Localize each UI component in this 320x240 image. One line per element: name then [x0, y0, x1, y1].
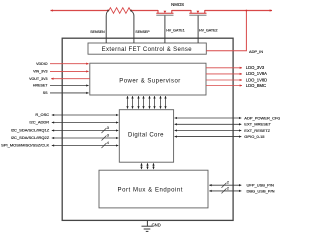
- svg-text:EXT_RESETZ: EXT_RESETZ: [244, 128, 270, 133]
- pin EXT_MRESET: [175, 123, 242, 125]
- svg-text:SS: SS: [43, 91, 48, 95]
- svg-text:R_OSC: R_OSC: [35, 112, 49, 117]
- svg-text:2: 2: [227, 186, 229, 190]
- transistor Q2 (NMOS): [189, 10, 206, 15]
- svg-text:LDO_BMC: LDO_BMC: [246, 83, 266, 88]
- LDO_3V3 output (red): [206, 67, 242, 69]
- pin SPI_MOSI/MISO/SSZ/CLK: [52, 145, 119, 147]
- svg-text:I2C_SDA/SCL/IRQ1Z: I2C_SDA/SCL/IRQ1Z: [11, 128, 50, 133]
- pin EXT_RESETZ: [175, 130, 242, 132]
- svg-text:LDO_1V8A: LDO_1V8A: [246, 71, 267, 76]
- svg-text:ADP_POWER_CFG1: ADP_POWER_CFG1: [244, 115, 280, 120]
- wire SENSEP (black, curved from rail down into FET box): [131, 11, 134, 43]
- svg-text:NMOS: NMOS: [171, 2, 184, 7]
- block Port Mux & Endpoint: [99, 170, 208, 208]
- svg-text:External FET Control & Sense: External FET Control & Sense: [102, 47, 193, 53]
- svg-text:SPI_MOSI/MISO/SSZ/CLK: SPI_MOSI/MISO/SSZ/CLK: [1, 143, 49, 148]
- svg-text:HRESET: HRESET: [33, 84, 48, 88]
- node SENSEN junction dot: [107, 10, 109, 12]
- LDO_1V8D output (red): [206, 79, 242, 81]
- pin VOUT_3V3 (red line out of Power block): [51, 78, 90, 80]
- resistor Rsense (red zigzag): [109, 8, 131, 14]
- svg-text:I2C_ADDR: I2C_ADDR: [29, 120, 49, 125]
- svg-text:VDDIO: VDDIO: [36, 62, 48, 66]
- svg-text:LDO_1V8D: LDO_1V8D: [246, 77, 267, 82]
- svg-text:GPIO_0-15: GPIO_0-15: [244, 134, 265, 139]
- svg-text:3: 3: [107, 126, 109, 130]
- svg-text:DBG_USB_P/N: DBG_USB_P/N: [247, 188, 275, 193]
- svg-text:SENSEN: SENSEN: [90, 30, 105, 34]
- ground: [142, 220, 153, 231]
- node ADP junction dot: [246, 10, 248, 12]
- svg-text:UFP_USB_P/N: UFP_USB_P/N: [247, 183, 274, 188]
- node SENSEP junction dot: [130, 10, 132, 12]
- svg-text:I2C_SDA/SCL/IRQ2Z: I2C_SDA/SCL/IRQ2Z: [11, 135, 50, 140]
- LDO_BMC output (red): [206, 85, 242, 87]
- svg-text:HV_GATE1: HV_GATE1: [166, 28, 185, 32]
- svg-text:3: 3: [107, 134, 109, 138]
- block Power & Supervisor: [90, 63, 206, 95]
- bus slash 3: [102, 136, 107, 141]
- bus slash 4: [102, 143, 107, 148]
- svg-text:SENSEP: SENSEP: [135, 30, 150, 34]
- svg-text:VIN_3V3: VIN_3V3: [33, 70, 47, 74]
- wire SENSEN (black, curved from rail down into FET box): [106, 11, 108, 43]
- svg-text:2: 2: [227, 181, 229, 185]
- pin HRESET (black line into Power block): [50, 85, 89, 87]
- pin I2C_SDA/SCL/IRQ1Z: [52, 130, 119, 132]
- transistor Q1 (NMOS): [156, 10, 173, 15]
- svg-text:Port Mux & Endpoint: Port Mux & Endpoint: [118, 187, 183, 193]
- wire HV_GATE2 (gate to FET box): [197, 16, 199, 43]
- bus slash 2: [222, 188, 227, 193]
- pin VDDIO (red line into Power block): [50, 63, 89, 65]
- bus Power to Digital (8 bidirectional arrows): [128, 96, 166, 109]
- block Digital Core: [119, 110, 173, 163]
- pin ADP_POWER_CFG1 (bidirectional from Digital Core): [175, 117, 242, 119]
- pin GPIO_0-15: [175, 136, 242, 138]
- pin R_OSC (bidirectional to Digital Core): [52, 114, 119, 116]
- svg-text:4: 4: [107, 141, 109, 145]
- LDO_1V8A output (red): [206, 73, 242, 75]
- svg-text:ADP_IN: ADP_IN: [249, 49, 263, 54]
- svg-text:HV_GATE2: HV_GATE2: [199, 28, 218, 32]
- bus slash 2: [222, 183, 227, 188]
- pin VIN_3V3 (red line into Power block): [50, 70, 89, 72]
- svg-text:LDO_3V3: LDO_3V3: [246, 65, 265, 70]
- pin I2C_SDA/SCL/IRQ2Z: [52, 137, 119, 139]
- block External FET Control & Sense: [88, 43, 206, 54]
- svg-text:GND: GND: [152, 222, 161, 227]
- wire HV_GATE1 (gate to FET box): [164, 16, 166, 43]
- bus slash 3: [102, 128, 107, 133]
- pin SS (black line into Power block): [50, 92, 89, 94]
- wire ADP_IN (red, from rail into FET box): [206, 11, 246, 51]
- wire VBUS rail (red power path): [51, 10, 273, 12]
- svg-text:Digital Core: Digital Core: [128, 132, 164, 138]
- svg-text:VOUT_3V3: VOUT_3V3: [29, 77, 47, 81]
- pin UFP_USB_P/N (bidirectional from Port Mux): [209, 184, 241, 186]
- svg-text:Power & Supervisor: Power & Supervisor: [119, 78, 180, 84]
- svg-text:EXT_MRESET: EXT_MRESET: [244, 122, 271, 127]
- pin DBG_USB_P/N: [209, 190, 241, 192]
- bus Digital to Port Mux (3 bidirectional arrows): [142, 163, 154, 169]
- pin I2C_ADDR: [52, 122, 119, 124]
- chip outline (outer box): [62, 38, 233, 220]
